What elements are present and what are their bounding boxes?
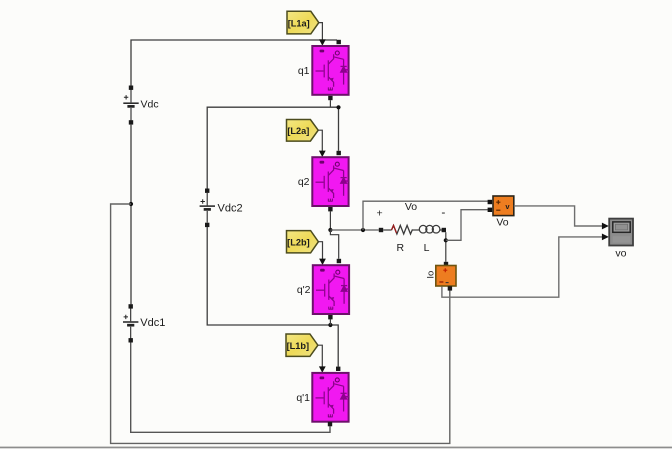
label: Vo across branch with + and - — [377, 201, 446, 220]
port: q2 collector — [337, 151, 341, 155]
wire: top bus from Vdc+ to q1 collector — [131, 40, 337, 86]
node B: junction of branch output, Vo - tap, Io — [444, 238, 448, 242]
inductor L — [413, 225, 442, 254]
IGBT q1 — [298, 46, 349, 95]
from tag [L2b] — [287, 231, 319, 253]
dc source Vdc2 — [200, 189, 243, 228]
current measurement Io — [426, 262, 456, 291]
wire: Vdc1- down, along bottom to q'1 emitter — [131, 343, 330, 433]
IGBT q'2 — [297, 265, 350, 314]
scope vo — [609, 219, 633, 260]
svg-text:Vdc: Vdc — [141, 98, 159, 110]
svg-text:L: L — [424, 242, 430, 254]
canvas bottom border line — [0, 447, 672, 449]
from tag [L1b] — [286, 334, 318, 356]
svg-text:Vdc1: Vdc1 — [140, 317, 165, 329]
dc source Vdc1 — [123, 304, 165, 342]
svg-text:[L1a]: [L1a] — [288, 18, 310, 28]
wire: branch output down to node B and Io + input — [445, 232, 447, 262]
node J1 midpoint junction — [129, 202, 133, 206]
svg-text:Vo: Vo — [405, 201, 417, 213]
from tag [L2a] — [287, 120, 319, 142]
svg-text:R: R — [397, 242, 405, 254]
svg-text:+: + — [377, 207, 383, 219]
svg-text:Vo: Vo — [496, 216, 508, 228]
wire: q1 emitter to mid bus — [329, 100, 331, 107]
port: q'1 collector — [336, 367, 340, 371]
svg-text:[L2b]: [L2b] — [287, 238, 309, 248]
wire: [L2b] to q'2 gate — [318, 242, 326, 265]
wire: Vo - tap from node B to Vo measurement - input — [446, 210, 488, 241]
svg-text:q2: q2 — [298, 176, 310, 188]
wire: Io signal output to scope input 2 — [442, 234, 609, 298]
port: q1 collector — [337, 40, 341, 44]
series RLC branch: right port — [442, 228, 446, 232]
node A: load output junction — [328, 228, 332, 232]
port: q1 emitter — [328, 96, 332, 100]
wire: Vdc- down to midpoint node and on to Vdc1+ — [130, 125, 132, 305]
port: q2 emitter — [328, 207, 332, 211]
svg-text:Vdc2: Vdc2 — [218, 202, 243, 214]
IGBT q2 — [298, 157, 349, 206]
svg-text:Io: Io — [426, 271, 437, 279]
svg-text:vo: vo — [615, 247, 626, 259]
wire: [L1a] to q1 gate — [319, 23, 326, 46]
svg-text:[L1b]: [L1b] — [287, 341, 309, 351]
wire: node A jog down to q'2 collector — [330, 230, 338, 259]
wire: [L1b] to q'1 gate — [318, 345, 326, 373]
svg-text:q'2: q'2 — [297, 284, 311, 296]
svg-text:q'1: q'1 — [296, 392, 310, 404]
resistor R — [383, 225, 412, 254]
node: junction of q'2 emitter with lower bus — [328, 323, 332, 327]
wire: Vdc2+ up to mid bus, across to q2 collector — [207, 107, 338, 188]
port: q'2 collector — [337, 259, 341, 263]
port: q'2 emitter — [328, 315, 332, 319]
voltage measurement Vo — [488, 196, 514, 228]
wire: q'2 emitter to lower bus — [329, 319, 331, 325]
node: + voltage tap junction — [361, 228, 365, 232]
port: q'1 emitter — [328, 422, 332, 426]
node: corner junction above q2 collector — [336, 105, 340, 109]
series RLC branch: left port — [379, 228, 383, 232]
wire: Vo measurement output to scope input 1 — [514, 206, 609, 230]
wire: midpoint to left return rail, down and across bottom to Io - terminal — [111, 204, 450, 443]
svg-text:-: - — [441, 205, 445, 219]
IGBT q'1 — [296, 373, 349, 422]
wire: node A to series RLC branch — [330, 229, 378, 231]
wire: + tap up and across to Vo measurement + input — [363, 201, 488, 230]
dc source Vdc — [123, 86, 158, 125]
svg-text:[L2a]: [L2a] — [287, 126, 309, 136]
svg-text:q1: q1 — [298, 65, 310, 77]
wire: [L2a] to q2 gate — [318, 130, 325, 157]
wire: q2 emitter down to load node A — [329, 211, 331, 230]
from tag [L1a] — [287, 11, 319, 34]
wire: Vdc2- down and across to q'1 collector, through q'2 emitter node — [207, 227, 338, 367]
